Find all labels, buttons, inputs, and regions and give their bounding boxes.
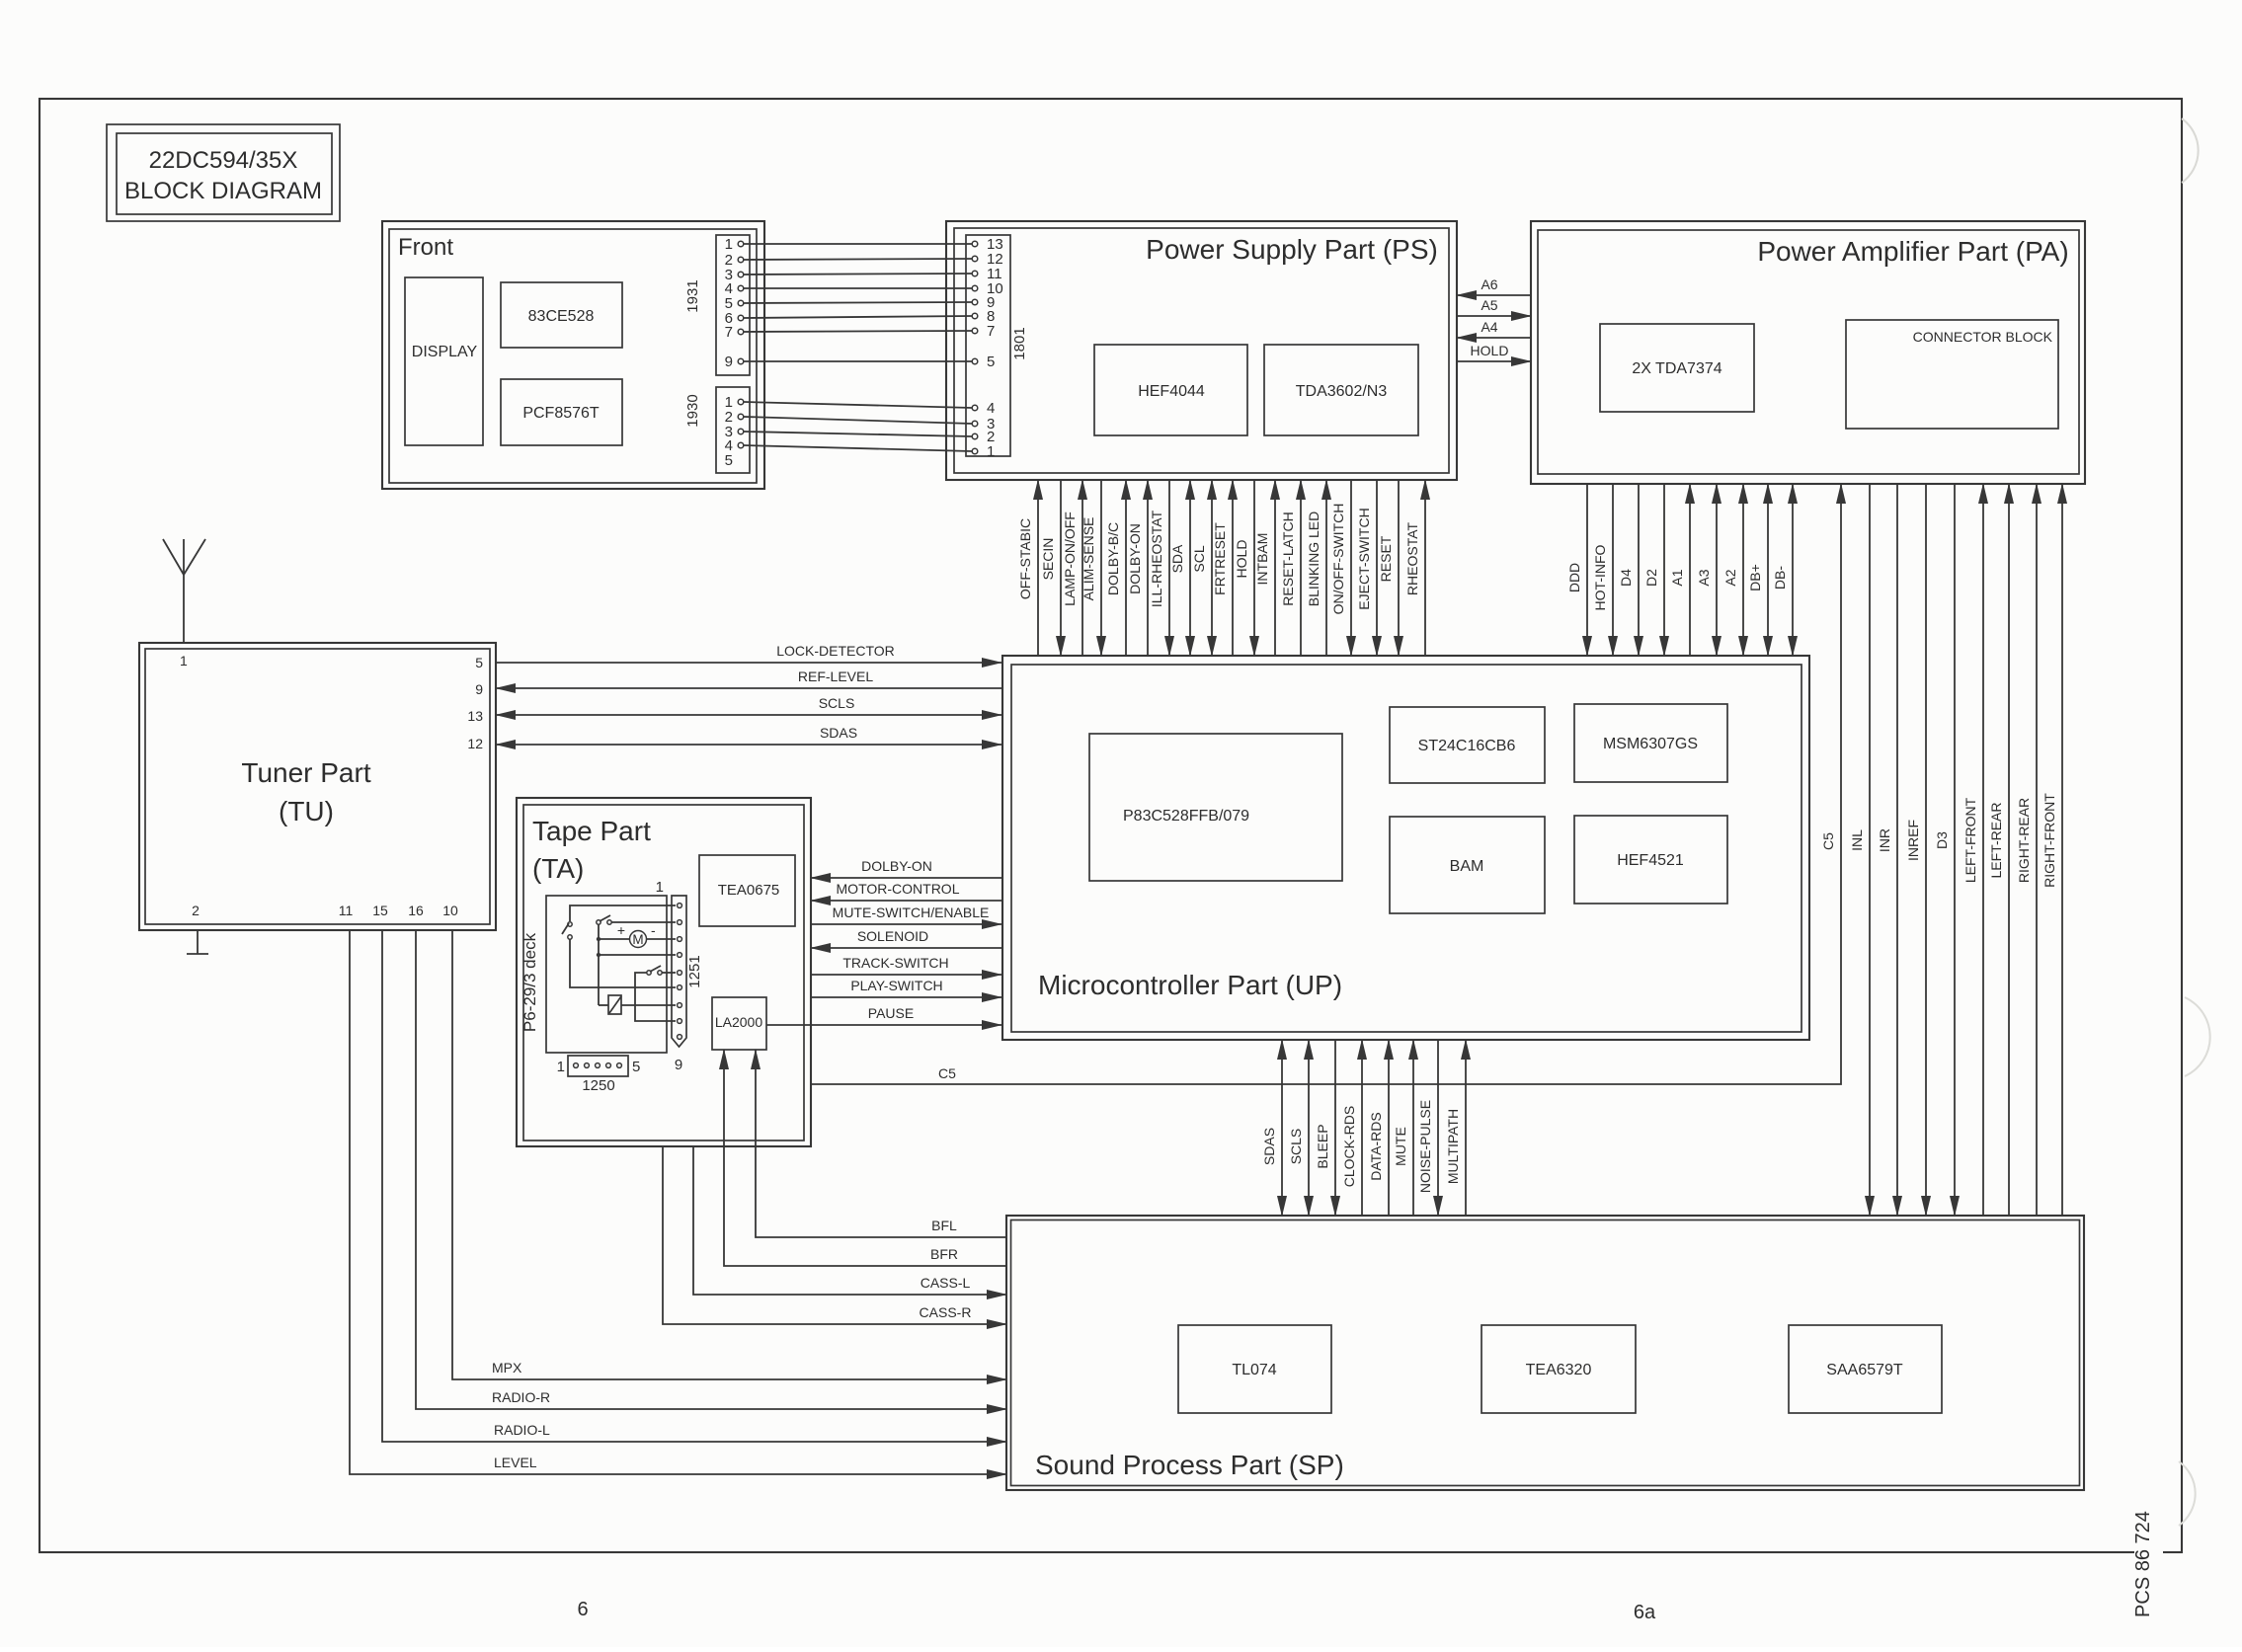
svg-text:DB+: DB+ xyxy=(1747,564,1763,591)
svg-text:1250: 1250 xyxy=(582,1077,614,1094)
deck wire switch A to pin 6 xyxy=(570,939,676,987)
svg-text:PAUSE: PAUSE xyxy=(868,1005,914,1021)
IC HEF4521 xyxy=(1574,816,1727,904)
svg-text:1801: 1801 xyxy=(1011,327,1028,359)
svg-text:5: 5 xyxy=(475,655,483,670)
Front block outer box xyxy=(382,221,764,489)
wire SECIN xyxy=(1040,480,1061,656)
svg-text:1930: 1930 xyxy=(684,394,701,427)
wire CASS-L xyxy=(693,1146,1006,1295)
svg-text:CASS-L: CASS-L xyxy=(921,1275,971,1291)
svg-text:A6: A6 xyxy=(1481,276,1497,292)
svg-text:TDA3602/N3: TDA3602/N3 xyxy=(1296,383,1388,400)
svg-text:RESET-LATCH: RESET-LATCH xyxy=(1280,511,1296,605)
IC PCF8576T xyxy=(501,379,622,445)
wire FRTRESET xyxy=(1212,480,1233,656)
connector 1801 pin 7 xyxy=(972,323,995,340)
wire CASS-R xyxy=(663,1146,1006,1324)
connector 1931 box xyxy=(716,235,750,375)
svg-text:INL: INL xyxy=(1849,829,1865,851)
wire 1930 pin3 to 1801 pin2 xyxy=(744,432,972,436)
wire 1930 pin1 to 1801 pin4 xyxy=(744,402,972,408)
IC TDA3602/N3 xyxy=(1264,345,1418,435)
svg-text:ST24C16CB6: ST24C16CB6 xyxy=(1418,738,1516,754)
svg-text:DATA-RDS: DATA-RDS xyxy=(1368,1112,1384,1180)
connector 1801 pin 3 xyxy=(972,416,995,433)
svg-text:RADIO-L: RADIO-L xyxy=(494,1422,550,1438)
svg-text:1931: 1931 xyxy=(684,279,701,312)
svg-text:TL074: TL074 xyxy=(1232,1362,1276,1378)
deck junction dot 2 xyxy=(597,953,601,957)
Microcontroller Part inner box xyxy=(1011,665,1802,1032)
Front block inner box xyxy=(389,229,757,483)
svg-text:C5: C5 xyxy=(938,1065,956,1081)
wire 1930 pin4 to 1801 pin1 xyxy=(744,445,972,451)
svg-text:9: 9 xyxy=(725,354,733,370)
connector 1930 pin 3 xyxy=(725,424,744,440)
wire DB+ xyxy=(1747,484,1768,656)
wire DB- xyxy=(1772,484,1793,656)
svg-text:SECIN: SECIN xyxy=(1040,538,1056,581)
svg-text:13: 13 xyxy=(467,708,483,724)
svg-text:NOISE-PULSE: NOISE-PULSE xyxy=(1417,1100,1433,1193)
svg-text:HEF4521: HEF4521 xyxy=(1617,852,1684,869)
svg-text:(TU): (TU) xyxy=(279,796,334,826)
svg-text:EJECT-SWITCH: EJECT-SWITCH xyxy=(1356,508,1372,609)
svg-text:DB-: DB- xyxy=(1772,566,1788,590)
wire ON/OFF-SWITCH xyxy=(1330,480,1351,656)
svg-text:DOLBY-B/C: DOLBY-B/C xyxy=(1105,522,1121,595)
svg-text:CASS-R: CASS-R xyxy=(920,1304,972,1320)
wire PAUSE xyxy=(766,1005,1001,1025)
svg-text:ON/OFF-SWITCH: ON/OFF-SWITCH xyxy=(1330,504,1346,615)
svg-text:12: 12 xyxy=(467,736,483,751)
connector 1931 pin 7 xyxy=(725,324,744,341)
svg-text:MSM6307GS: MSM6307GS xyxy=(1603,736,1698,752)
svg-text:SDAS: SDAS xyxy=(1261,1128,1277,1165)
svg-text:C5: C5 xyxy=(1820,832,1836,850)
svg-text:7: 7 xyxy=(725,324,733,341)
wire MULTIPATH xyxy=(1445,1040,1466,1216)
connector 1931 pin 6 xyxy=(725,310,744,327)
svg-text:FRTRESET: FRTRESET xyxy=(1212,522,1228,595)
connector 1801 box xyxy=(966,235,1010,456)
wire LEFT-REAR xyxy=(1988,484,2009,1216)
IC HEF4044 xyxy=(1094,345,1247,435)
svg-text:MULTIPATH: MULTIPATH xyxy=(1445,1109,1461,1184)
Power Amplifier Part inner box xyxy=(1538,230,2079,474)
svg-text:Front: Front xyxy=(398,234,453,261)
svg-text:TEA0675: TEA0675 xyxy=(718,882,780,899)
connector 1250 pins xyxy=(574,1063,622,1068)
connector 1801 pin 10 xyxy=(972,280,1002,297)
wire HOT-INFO xyxy=(1592,484,1613,656)
connector 1250 box xyxy=(568,1056,628,1076)
ground symbol at tuner pin 2 xyxy=(187,930,208,954)
svg-text:REF-LEVEL: REF-LEVEL xyxy=(798,669,873,684)
CONNECTOR BLOCK box xyxy=(1846,320,2058,429)
svg-text:PLAY-SWITCH: PLAY-SWITCH xyxy=(850,978,942,993)
wire RESET-LATCH xyxy=(1280,480,1301,656)
connector 1930 pin 2 xyxy=(725,409,744,426)
svg-text:RHEOSTAT: RHEOSTAT xyxy=(1404,521,1420,595)
wire D2 xyxy=(1643,484,1664,656)
svg-text:A5: A5 xyxy=(1481,297,1497,313)
deck wire to motor left xyxy=(599,938,629,940)
svg-text:A2: A2 xyxy=(1722,569,1738,586)
svg-text:4: 4 xyxy=(987,400,995,417)
deck relay box xyxy=(608,995,621,1014)
svg-text:11: 11 xyxy=(339,903,354,918)
svg-text:TEA6320: TEA6320 xyxy=(1526,1362,1592,1378)
connector 1801 pin 11 xyxy=(972,266,1001,282)
deck wire bus to relay xyxy=(599,1004,608,1006)
wire DOLBY-ON xyxy=(811,858,1001,878)
svg-text:A3: A3 xyxy=(1696,569,1712,586)
svg-text:1: 1 xyxy=(180,653,188,669)
svg-text:ILL-RHEOSTAT: ILL-RHEOSTAT xyxy=(1149,510,1164,607)
Power Supply Part outer box xyxy=(946,221,1457,480)
IC BAM xyxy=(1390,817,1545,913)
svg-text:A1: A1 xyxy=(1669,569,1685,586)
wire CLOCK-RDS xyxy=(1341,1040,1362,1216)
wire DOLBY-B/C xyxy=(1105,480,1126,656)
wire INTBAM xyxy=(1254,480,1275,656)
doc number PCS 86 724 backing xyxy=(2134,1500,2163,1620)
svg-text:15: 15 xyxy=(372,903,388,918)
IC TEA6320 xyxy=(1481,1325,1636,1413)
svg-text:D3: D3 xyxy=(1934,831,1950,849)
antenna xyxy=(163,539,205,643)
svg-text:BAM: BAM xyxy=(1450,858,1484,875)
svg-text:D2: D2 xyxy=(1643,569,1659,587)
svg-text:2X TDA7374: 2X TDA7374 xyxy=(1632,360,1722,377)
wire PLAY-SWITCH xyxy=(811,978,1001,997)
connector 1930 pin 4 xyxy=(725,437,744,454)
svg-text:M: M xyxy=(632,932,643,947)
svg-text:RIGHT-REAR: RIGHT-REAR xyxy=(2016,798,2032,883)
wire DDD xyxy=(1566,484,1587,656)
wire RADIO-R xyxy=(416,930,1006,1409)
wire C5 vertical xyxy=(811,484,1841,1084)
wire INR xyxy=(1877,484,1897,1216)
punch hole arc middle xyxy=(2185,997,2210,1076)
deck wire switch C to pin 8 xyxy=(635,973,676,1021)
svg-text:OFF-STABIC: OFF-STABIC xyxy=(1017,518,1033,599)
svg-text:INTBAM: INTBAM xyxy=(1254,533,1270,586)
wire LOCK-DETECTOR xyxy=(496,643,1001,663)
deck wire to pin 4 xyxy=(599,954,676,956)
wire 1931 pin7 to 1801 pin7 xyxy=(744,331,972,332)
Microcontroller Part outer box xyxy=(1002,656,1809,1040)
deck wire motor to pin 3 xyxy=(647,938,676,940)
svg-text:HOLD: HOLD xyxy=(1234,540,1249,579)
wire LEVEL xyxy=(350,930,1006,1474)
wire BFL xyxy=(756,1050,1006,1237)
deck wire switch C to pin 5 xyxy=(662,972,676,974)
wire 1931 pin9 to 1801 pin5 xyxy=(744,360,972,362)
svg-text:6a: 6a xyxy=(1634,1602,1656,1623)
connector 1801 pin 4 xyxy=(972,400,995,417)
svg-text:PCF8576T: PCF8576T xyxy=(522,405,600,422)
svg-text:(TA): (TA) xyxy=(532,853,584,884)
deck switch B xyxy=(597,915,611,924)
Sound Process Part inner box xyxy=(1011,1220,2080,1486)
svg-text:2: 2 xyxy=(192,903,200,918)
svg-text:Tape Part: Tape Part xyxy=(532,816,651,846)
wire D4 xyxy=(1618,484,1639,656)
svg-text:SDA: SDA xyxy=(1169,544,1185,573)
svg-text:BFR: BFR xyxy=(930,1246,958,1262)
svg-text:Tuner Part: Tuner Part xyxy=(241,757,370,788)
deck vertical bus wire xyxy=(598,924,600,1005)
IC 83CE528 xyxy=(501,282,622,348)
wire RHEOSTAT xyxy=(1404,480,1425,656)
wire MUTE xyxy=(1393,1040,1413,1216)
svg-text:Power Supply Part (PS): Power Supply Part (PS) xyxy=(1146,234,1438,265)
svg-text:P6-29/3 deck: P6-29/3 deck xyxy=(520,932,539,1032)
wire DOLBY-ON xyxy=(1127,480,1148,656)
wire SDAS tuner xyxy=(496,725,1001,745)
wire ALIM-SENSE xyxy=(1081,480,1101,656)
wire INL xyxy=(1849,484,1870,1216)
tape deck box xyxy=(546,896,667,1053)
connector 1251 pins xyxy=(678,904,682,1040)
svg-text:1: 1 xyxy=(656,879,664,896)
svg-text:ALIM-SENSE: ALIM-SENSE xyxy=(1081,517,1096,601)
wire SDA xyxy=(1169,480,1190,656)
svg-text:CLOCK-RDS: CLOCK-RDS xyxy=(1341,1106,1357,1187)
wire LAMP-ON/OFF xyxy=(1062,480,1082,656)
svg-text:Sound Process Part (SP): Sound Process Part (SP) xyxy=(1035,1450,1344,1480)
svg-text:SCLS: SCLS xyxy=(1288,1129,1304,1165)
svg-text:SCL: SCL xyxy=(1191,545,1207,572)
wire ILL-RHEOSTAT xyxy=(1149,480,1169,656)
wire 1931 pin6 to 1801 pin8 xyxy=(744,316,972,318)
svg-text:BFL: BFL xyxy=(931,1218,957,1233)
svg-text:1: 1 xyxy=(987,443,995,460)
svg-text:RIGHT-FRONT: RIGHT-FRONT xyxy=(2042,793,2057,888)
IC LA2000 xyxy=(712,997,766,1050)
wire 1931 pin5 to 1801 pin9 xyxy=(744,302,972,303)
svg-text:DOLBY-ON: DOLBY-ON xyxy=(1127,523,1143,594)
svg-text:LOCK-DETECTOR: LOCK-DETECTOR xyxy=(776,643,895,659)
connector 1801 pin 9 xyxy=(972,294,995,311)
svg-text:BLOCK DIAGRAM: BLOCK DIAGRAM xyxy=(124,178,322,204)
IC TL074 xyxy=(1178,1325,1331,1413)
svg-text:1: 1 xyxy=(557,1059,565,1075)
connector 1931 pin 4 xyxy=(725,280,744,297)
svg-text:MPX: MPX xyxy=(492,1360,522,1376)
connector 1801 pin 12 xyxy=(972,251,1002,268)
deck wire relay to pin 7 xyxy=(621,1004,676,1006)
Tuner Part outer box xyxy=(139,643,496,930)
wire SDAS xyxy=(1261,1040,1282,1216)
connector 1801 pin 5 xyxy=(972,354,995,370)
wire LEFT-FRONT xyxy=(1962,484,1983,1216)
Power Supply Part inner box xyxy=(954,228,1449,473)
connector 1930 pin 1 xyxy=(725,394,744,411)
wire A1 xyxy=(1669,484,1690,656)
svg-text:LA2000: LA2000 xyxy=(715,1014,762,1030)
svg-text:PCS 86 724: PCS 86 724 xyxy=(2132,1511,2154,1617)
wire DATA-RDS xyxy=(1368,1040,1389,1216)
svg-text:SDAS: SDAS xyxy=(820,725,857,741)
svg-text:DISPLAY: DISPLAY xyxy=(412,344,478,360)
Tuner Part inner box xyxy=(145,649,490,924)
wire 1931 pin4 to 1801 pin10 xyxy=(744,287,972,289)
IC MSM6307GS xyxy=(1574,704,1727,782)
wire A4 xyxy=(1457,319,1531,338)
connector 1931 pin 5 xyxy=(725,295,744,312)
Power Amplifier Part outer box xyxy=(1531,221,2085,484)
wire TRACK-SWITCH xyxy=(811,955,1001,975)
svg-text:1251: 1251 xyxy=(686,955,703,987)
wire OFF-STABIC xyxy=(1017,480,1038,656)
connector 1801 pin 2 xyxy=(972,429,995,445)
svg-text:5: 5 xyxy=(987,354,995,370)
wire MPX xyxy=(452,930,1006,1379)
wire HOLD xyxy=(1457,343,1531,361)
svg-text:LEFT-FRONT: LEFT-FRONT xyxy=(1962,797,1978,883)
svg-text:D4: D4 xyxy=(1618,569,1634,587)
wire NOISE-PULSE xyxy=(1417,1040,1438,1216)
connector 1931 pin 9 xyxy=(725,354,744,370)
wire MUTE-SWITCH/ENABLE xyxy=(811,905,1001,924)
Tape Part inner box xyxy=(523,805,804,1141)
wire HOLD xyxy=(1234,480,1254,656)
svg-text:9: 9 xyxy=(475,681,483,697)
Tape Part outer box xyxy=(517,798,811,1146)
wire 1931 pin1 to 1801 pin13 xyxy=(744,243,972,245)
connector 1931 pin 1 xyxy=(725,236,744,253)
wire A3 xyxy=(1696,484,1717,656)
wire A2 xyxy=(1722,484,1743,656)
DISPLAY box xyxy=(405,277,483,445)
wire RIGHT-FRONT xyxy=(2042,484,2062,1216)
svg-text:Power Amplifier Part (PA): Power Amplifier Part (PA) xyxy=(1757,236,2068,267)
svg-text:HEF4044: HEF4044 xyxy=(1138,383,1205,400)
connector 1801 pin 1 xyxy=(972,443,995,460)
wire MOTOR-CONTROL xyxy=(811,881,1001,901)
deck wire switch B to pin 2 xyxy=(611,921,676,923)
svg-text:MUTE-SWITCH/ENABLE: MUTE-SWITCH/ENABLE xyxy=(833,905,990,920)
svg-text:HOT-INFO: HOT-INFO xyxy=(1592,544,1608,610)
svg-text:6: 6 xyxy=(577,1599,588,1620)
svg-text:83CE528: 83CE528 xyxy=(528,308,595,325)
svg-text:HOLD: HOLD xyxy=(1471,343,1509,358)
connector 1801 pin 8 xyxy=(972,308,995,325)
svg-text:MOTOR-CONTROL: MOTOR-CONTROL xyxy=(837,881,960,897)
svg-text:TRACK-SWITCH: TRACK-SWITCH xyxy=(842,955,948,971)
wire BLINKING LED xyxy=(1306,480,1326,656)
wire A5 xyxy=(1457,297,1531,316)
connector 1930 box xyxy=(716,387,750,473)
connector 1931 pin 2 xyxy=(725,252,744,269)
svg-text:INR: INR xyxy=(1877,828,1892,852)
svg-text:7: 7 xyxy=(987,323,995,340)
IC 2X TDA7374 xyxy=(1600,324,1754,412)
svg-text:SCLS: SCLS xyxy=(819,695,855,711)
svg-text:Microcontroller Part (UP): Microcontroller Part (UP) xyxy=(1038,970,1342,1000)
wire 1931 pin3 to 1801 pin11 xyxy=(744,274,972,275)
wire D3 xyxy=(1934,484,1955,1216)
svg-text:+: + xyxy=(617,922,625,938)
svg-text:BLEEP: BLEEP xyxy=(1315,1124,1330,1168)
wire 1931 pin2 to 1801 pin12 xyxy=(744,259,972,260)
deck switch C xyxy=(647,966,662,975)
IC TEA0675 xyxy=(699,855,795,926)
IC ST24C16CB6 xyxy=(1390,707,1545,783)
wire SCL xyxy=(1191,480,1212,656)
svg-text:LAMP-ON/OFF: LAMP-ON/OFF xyxy=(1062,511,1078,606)
svg-text:CONNECTOR BLOCK: CONNECTOR BLOCK xyxy=(1913,329,2053,345)
svg-text:-: - xyxy=(651,922,656,938)
connector 1931 pin 3 xyxy=(725,267,744,283)
wire SOLENOID xyxy=(811,928,1001,948)
svg-text:LEVEL: LEVEL xyxy=(494,1455,537,1470)
Sound Process Part outer box xyxy=(1006,1216,2084,1490)
svg-text:RESET: RESET xyxy=(1378,535,1394,582)
svg-text:16: 16 xyxy=(408,903,424,918)
svg-text:MUTE: MUTE xyxy=(1393,1127,1408,1166)
svg-text:A4: A4 xyxy=(1481,319,1497,335)
wire BFR xyxy=(724,1050,1006,1266)
wire SCLS xyxy=(1288,1040,1309,1216)
connector 1251 shape xyxy=(672,896,686,1047)
punch hole arc bottom xyxy=(2179,1461,2196,1526)
svg-text:INREF: INREF xyxy=(1905,820,1921,861)
connector 1801 pin 13 xyxy=(972,236,1002,253)
punch hole arc top xyxy=(2182,118,2199,183)
deck switch A xyxy=(562,922,572,939)
wire A6 xyxy=(1457,276,1531,295)
wire SCLS tuner xyxy=(496,695,1001,715)
IC P83C528FFB/079 xyxy=(1089,734,1342,881)
wire RIGHT-REAR xyxy=(2016,484,2037,1216)
wire RADIO-L xyxy=(382,930,1006,1442)
svg-text:P83C528FFB/079: P83C528FFB/079 xyxy=(1123,808,1249,825)
svg-text:9: 9 xyxy=(675,1057,682,1073)
wire EJECT-SWITCH xyxy=(1356,480,1377,656)
svg-text:5: 5 xyxy=(725,452,733,469)
svg-text:BLINKING LED: BLINKING LED xyxy=(1306,511,1321,606)
wire REF-LEVEL xyxy=(496,669,1001,688)
svg-text:5: 5 xyxy=(632,1059,640,1075)
svg-text:SOLENOID: SOLENOID xyxy=(857,928,928,944)
IC SAA6579T xyxy=(1789,1325,1942,1413)
title box inner xyxy=(117,133,332,214)
wire BLEEP xyxy=(1315,1040,1335,1216)
svg-text:DOLBY-ON: DOLBY-ON xyxy=(861,858,932,874)
motor M xyxy=(617,922,656,948)
svg-text:1: 1 xyxy=(725,236,733,253)
svg-text:10: 10 xyxy=(442,903,458,918)
wire INREF xyxy=(1905,484,1926,1216)
wire RESET xyxy=(1378,480,1399,656)
svg-text:LEFT-REAR: LEFT-REAR xyxy=(1988,802,2004,878)
svg-text:RADIO-R: RADIO-R xyxy=(492,1389,550,1405)
svg-text:SAA6579T: SAA6579T xyxy=(1826,1362,1903,1378)
svg-text:DDD: DDD xyxy=(1566,563,1582,592)
svg-text:22DC594/35X: 22DC594/35X xyxy=(149,147,298,174)
title box outer xyxy=(107,124,340,221)
deck junction dot 1 xyxy=(597,937,601,941)
wire 1930 pin2 to 1801 pin3 xyxy=(744,417,972,424)
deck wire to pin 1 xyxy=(570,905,676,921)
